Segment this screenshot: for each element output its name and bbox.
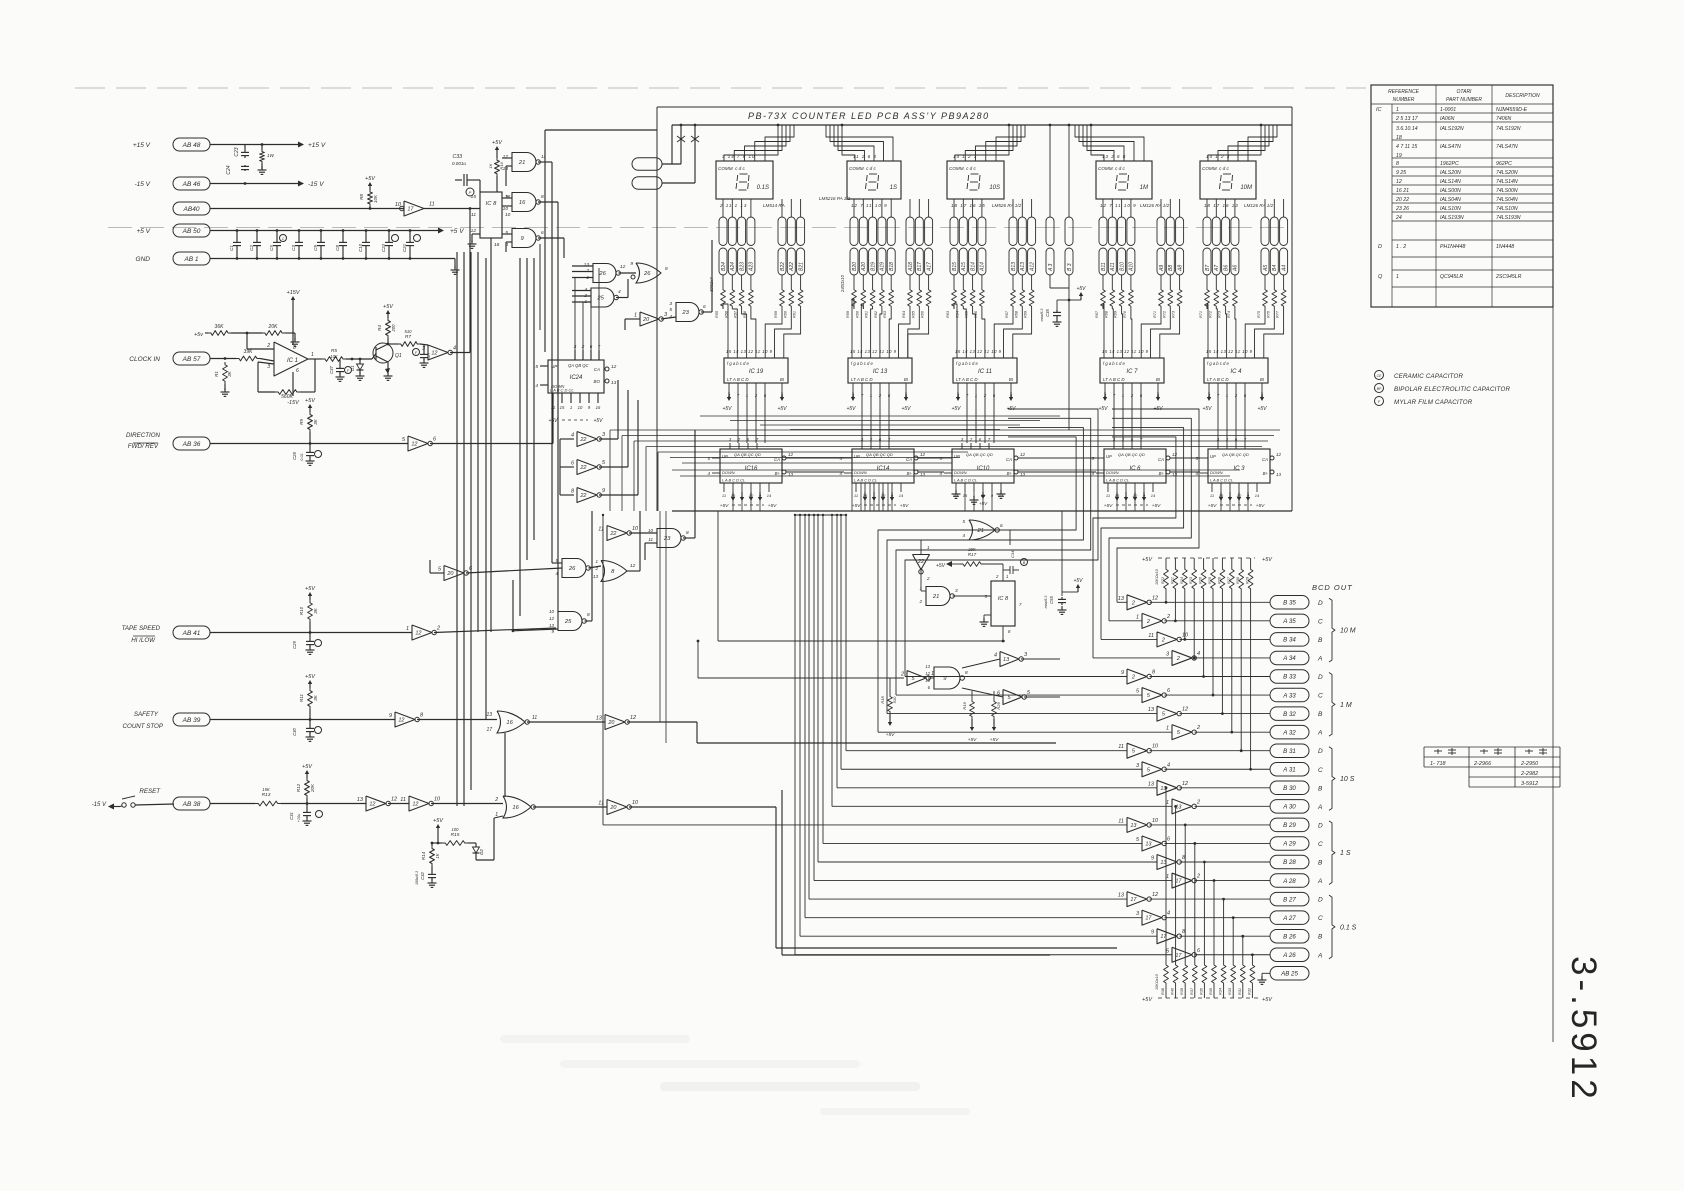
svg-text:C55: C55 <box>1049 595 1054 603</box>
wire NAND25 output <box>616 297 628 299</box>
svg-text:15 14 13 12 11 10 9: 15 14 13 12 11 10 9 <box>1102 349 1149 354</box>
resistor for B8 <box>1169 275 1171 287</box>
svg-text:+5V: +5V <box>1098 406 1108 412</box>
svg-text:+5V: +5V <box>1152 503 1161 509</box>
svg-text:14: 14 <box>767 493 772 498</box>
resistor for A8 <box>1179 275 1181 287</box>
counter IC10 <box>952 449 1014 483</box>
svg-text:D: D <box>1318 897 1323 904</box>
svg-text:12: 12 <box>411 442 417 448</box>
svg-text:A 35: A 35 <box>1282 618 1296 625</box>
svg-text:4: 4 <box>994 653 997 659</box>
svg-text:+5V: +5V <box>886 732 895 738</box>
svg-text:15K: 15K <box>262 787 270 792</box>
svg-text:A: A <box>1317 730 1322 737</box>
NAND gate 21 middle <box>920 568 922 591</box>
counter IC16 <box>720 449 782 483</box>
counter IC16 top pins <box>729 443 731 449</box>
svg-text:R75: R75 <box>1257 310 1261 318</box>
svg-text:1S: 1S <box>890 185 897 191</box>
inverter 20 upper <box>640 312 659 326</box>
connector A 27 <box>1270 911 1309 925</box>
counter IC14 bottom pins <box>855 483 857 492</box>
svg-text:R61: R61 <box>793 311 797 318</box>
svg-text:13: 13 <box>1118 893 1125 899</box>
svg-text:1962PC: 1962PC <box>1440 161 1459 167</box>
svg-text:A17: A17 <box>926 262 932 272</box>
svg-text:1 M: 1 M <box>1340 702 1352 709</box>
connector pad B18 <box>887 217 895 246</box>
svg-text:R36: R36 <box>1199 987 1203 995</box>
counter IC 3 top pins <box>1217 443 1219 449</box>
inverter 22 down <box>913 555 930 570</box>
svg-text:19: 19 <box>1396 153 1402 159</box>
svg-text:2-2982: 2-2982 <box>1520 771 1538 777</box>
svg-text:2: 2 <box>1176 656 1180 662</box>
resistor for B18 <box>890 275 892 287</box>
capacitor C8 <box>342 231 344 241</box>
resistor R4 200 <box>387 313 389 318</box>
faint smudges bottom <box>500 1035 690 1043</box>
wires IC 13 to counter <box>861 392 863 443</box>
wire bus vertical 2 <box>463 252 465 806</box>
connector pad A6 <box>1231 217 1239 246</box>
wire +15V to op-amp <box>292 299 294 345</box>
svg-text:2-2966: 2-2966 <box>1473 761 1492 767</box>
capacitor C32 <box>431 866 433 872</box>
connector pad B22 <box>778 217 786 246</box>
IC8b ground <box>984 614 991 616</box>
svg-text:A24: A24 <box>730 262 736 272</box>
svg-text:100u/6.3: 100u/6.3 <box>415 871 419 885</box>
svg-text:+15V: +15V <box>287 290 301 296</box>
svg-text:R73: R73 <box>1218 310 1222 318</box>
svg-text:IC: IC <box>1376 107 1382 113</box>
svg-text:A13: A13 <box>1020 262 1026 272</box>
counter IC16 bottom pins <box>723 483 725 492</box>
svg-text:C34: C34 <box>1010 550 1015 558</box>
counter IC10 grounds <box>955 490 957 494</box>
svg-text:R9: R9 <box>299 419 304 425</box>
wire +5V rail <box>210 230 438 232</box>
svg-text:R7: R7 <box>405 334 411 340</box>
svg-text:R40: R40 <box>1171 987 1175 995</box>
resistor R22 <box>1165 558 1167 566</box>
parts table <box>1371 85 1553 307</box>
svg-text:12: 12 <box>471 228 477 234</box>
wires 10M into decoder <box>1207 304 1208 358</box>
wire C35 +5V <box>1069 299 1081 301</box>
resistor R39 <box>1184 986 1186 998</box>
connector pad A4 <box>1280 217 1288 246</box>
svg-text:DOWN: DOWN <box>854 470 867 475</box>
wire feed row B 35 <box>1117 601 1127 603</box>
svg-text:R74: R74 <box>1227 311 1231 318</box>
connector pad A7 <box>1212 217 1220 246</box>
svg-text:+5V: +5V <box>305 674 316 680</box>
wire clock to bus <box>450 352 470 354</box>
wires NAND inputs from IC8 <box>502 197 512 199</box>
svg-text:MYLAR FILM CAPACITOR: MYLAR FILM CAPACITOR <box>1394 399 1473 406</box>
svg-text:510: 510 <box>405 329 413 334</box>
svg-text:240Ωx10: 240Ωx10 <box>840 274 845 293</box>
svg-text:11: 11 <box>1148 633 1154 639</box>
IC24 side pins <box>540 365 548 367</box>
resistor R8 pullup <box>369 185 371 190</box>
svg-text:A 34: A 34 <box>1282 655 1296 662</box>
wire feed row B 33 <box>905 676 1127 678</box>
svg-text:IALS04N: IALS04N <box>1440 197 1461 203</box>
svg-text:R64: R64 <box>902 311 906 318</box>
svg-text:C28: C28 <box>292 451 297 459</box>
svg-text:962PC: 962PC <box>1496 161 1512 167</box>
svg-text:20K: 20K <box>310 783 315 793</box>
svg-text:CLOCK IN: CLOCK IN <box>129 356 160 363</box>
wire bus vertical 6 <box>512 580 514 632</box>
wire output row B 34 <box>1180 638 1271 640</box>
counter IC14 <box>852 449 914 483</box>
wires nested bus around IC3 <box>1112 409 1199 602</box>
svg-text:C3: C3 <box>291 245 296 251</box>
resistor for A15 <box>962 275 964 287</box>
svg-text:13: 13 <box>925 664 930 669</box>
inverter 22 a <box>577 432 597 447</box>
comm oval 2 <box>632 177 662 190</box>
svg-text:A 28: A 28 <box>1282 878 1296 885</box>
svg-text:4: 4 <box>1167 911 1170 917</box>
svg-text:BCD OUT: BCD OUT <box>1312 583 1353 592</box>
svg-text:22: 22 <box>609 531 616 537</box>
inverter 17 <box>404 201 424 216</box>
wire NAND16 output <box>538 201 558 203</box>
svg-text:AB40: AB40 <box>183 206 200 213</box>
svg-text:PART NUMBER: PART NUMBER <box>1446 97 1482 103</box>
svg-text:1W: 1W <box>267 153 275 158</box>
svg-text:13: 13 <box>1003 657 1010 663</box>
wire feed row A 29 <box>823 842 1142 844</box>
svg-text:+5V: +5V <box>1142 557 1153 563</box>
svg-text:13: 13 <box>611 380 617 386</box>
svg-text:DESCRIPTION: DESCRIPTION <box>1505 93 1540 99</box>
wires inverter 22 column <box>599 438 618 440</box>
svg-text:A22: A22 <box>789 262 795 272</box>
connector pad A12 <box>1028 217 1036 246</box>
resistor for B21 <box>800 275 802 287</box>
svg-text:IALS47N: IALS47N <box>1440 144 1461 150</box>
svg-text:2-2950: 2-2950 <box>1520 761 1539 767</box>
svg-text:12: 12 <box>503 154 509 160</box>
svg-text:A23: A23 <box>749 262 755 272</box>
svg-text:18: 18 <box>494 242 500 248</box>
inverter 13 for B 29 <box>1127 817 1147 832</box>
wire output row A 29 <box>1165 842 1271 844</box>
wire -15V rail <box>210 183 298 185</box>
svg-text:D: D <box>1318 748 1323 755</box>
svg-text:A9: A9 <box>1159 265 1165 272</box>
svg-text:9: 9 <box>389 713 392 719</box>
wire feed row A 28 <box>814 880 1172 882</box>
svg-text:1: 1 <box>1136 614 1139 620</box>
svg-text:C10: C10 <box>358 243 363 252</box>
svg-text:1: 1 <box>1166 726 1169 732</box>
svg-text:+15 V: +15 V <box>308 142 326 149</box>
wire bus vertical 5 <box>485 258 487 719</box>
wire NAND23 lower inputs <box>645 542 657 544</box>
svg-text:UP: UP <box>1106 454 1112 459</box>
resistor for A5 <box>1264 275 1266 287</box>
connector pad A22 <box>787 217 795 246</box>
wires central vertical bus to lower rows <box>845 515 847 751</box>
inverter 13 for B 30 <box>1157 780 1177 795</box>
svg-text:+5V: +5V <box>979 501 988 506</box>
wire R37 tail <box>1194 843 1196 962</box>
connector A 30 <box>1270 800 1309 814</box>
decoder IC 19 <box>724 358 788 383</box>
wire output row A 28 <box>1195 880 1271 882</box>
svg-text:12: 12 <box>611 364 617 370</box>
svg-text:C: C <box>1318 618 1323 625</box>
feedback resistor 20K <box>231 332 262 334</box>
resistor R9 pullup <box>309 407 311 412</box>
svg-text:74LS14N: 74LS14N <box>1496 179 1518 185</box>
svg-text:R67: R67 <box>1095 310 1099 318</box>
svg-text:QA QB QC QD: QA QB QC QD <box>866 452 893 457</box>
connector pad B19 <box>869 217 877 246</box>
capacitor C35 <box>1057 299 1069 301</box>
connector pad A3 <box>1046 217 1054 246</box>
svg-text:R18: R18 <box>880 696 885 704</box>
svg-text:17: 17 <box>407 207 414 213</box>
svg-text:+5V: +5V <box>1142 997 1153 1003</box>
svg-text:A14: A14 <box>980 262 986 272</box>
capacitor C21 <box>409 231 411 241</box>
svg-text:B+: B+ <box>907 471 913 476</box>
svg-text:10: 10 <box>648 528 654 533</box>
svg-text:R66: R66 <box>921 310 925 318</box>
svg-text:B22: B22 <box>780 262 786 271</box>
resistor R32 <box>1251 986 1253 998</box>
svg-text:AB 57: AB 57 <box>182 356 201 363</box>
svg-text:3: 3 <box>955 588 958 594</box>
resistor R5 10K <box>315 358 322 360</box>
resistor R15 100 <box>438 842 442 844</box>
wire bus vertical 4 <box>477 252 479 632</box>
svg-text:R55: R55 <box>715 310 719 318</box>
svg-text:C35: C35 <box>1045 308 1050 316</box>
svg-text:max/6.3: max/6.3 <box>1044 596 1048 609</box>
page top chain line <box>75 87 1366 89</box>
transistor Q1 <box>373 343 393 363</box>
svg-text:A19: A19 <box>880 262 886 272</box>
wire R21 tail <box>1174 592 1176 621</box>
connector AB36 <box>173 437 210 450</box>
NAND gate 25 tape <box>558 612 582 631</box>
svg-text:AB 1: AB 1 <box>183 256 198 263</box>
svg-text:2: 2 <box>266 343 270 349</box>
svg-text:BO: BO <box>593 379 600 384</box>
wire R28 tail <box>1221 592 1223 714</box>
svg-text:2: 2 <box>900 672 904 678</box>
svg-text:2: 2 <box>1166 614 1170 620</box>
svg-text:IC14: IC14 <box>877 466 890 472</box>
capacitor C10 <box>365 231 367 241</box>
inverter 12 safety <box>395 712 415 727</box>
wire AB41 to inverter <box>210 632 412 634</box>
svg-text:74LS192N: 74LS192N <box>1496 126 1521 132</box>
svg-text:C32: C32 <box>420 871 425 879</box>
inverter 2 for B 34 <box>1157 632 1177 647</box>
wire output row B 33 <box>1150 676 1271 678</box>
wire R33 tail <box>1232 918 1234 962</box>
resistor R25 <box>1212 558 1214 566</box>
svg-text:QA QB QC QD: QA QB QC QD <box>1222 452 1249 457</box>
resistor for A13 <box>1021 275 1023 287</box>
connector pad A11 <box>1108 217 1116 246</box>
wire tape line into NAND25 <box>513 629 558 631</box>
svg-text:9 25: 9 25 <box>1396 170 1406 176</box>
wire bus vertical 10 <box>544 130 546 352</box>
svg-text:9: 9 <box>630 261 633 267</box>
svg-text:5: 5 <box>505 230 508 236</box>
wire +15V rail <box>210 144 298 146</box>
svg-text:NJM4559D-E: NJM4559D-E <box>1496 107 1528 113</box>
wire clock input <box>210 358 236 360</box>
svg-text:B6: B6 <box>1223 265 1229 271</box>
svg-text:11: 11 <box>1118 818 1124 824</box>
inverter 22 b <box>577 460 597 475</box>
svg-text:LT A B C D: LT A B C D <box>1103 377 1125 382</box>
connector pad A9 <box>1157 217 1165 246</box>
wire horizontals bus texture <box>610 429 1280 431</box>
wire title box top <box>657 106 1292 108</box>
wire feed row A 35 <box>1109 620 1142 622</box>
capacitor C2 <box>256 231 258 241</box>
svg-text:17: 17 <box>486 727 492 733</box>
svg-text:6: 6 <box>1000 523 1003 529</box>
wire bus verticals from counters <box>851 483 853 511</box>
svg-text:2: 2 <box>1196 799 1200 805</box>
svg-text:PB-73X COUNTER LED PCB A: PB-73X COUNTER LED PCB ASS’Y PB9A280 <box>748 111 990 121</box>
svg-text:UP: UP <box>1210 454 1216 459</box>
counter IC14 top pins <box>861 443 863 449</box>
svg-text:DOWN: DOWN <box>954 470 967 475</box>
svg-text:12: 12 <box>1276 452 1282 457</box>
resistor R29 <box>1250 558 1252 566</box>
connector B 33 <box>1270 670 1309 684</box>
svg-text:R61: R61 <box>865 311 869 318</box>
wire bus vertical 7 <box>519 258 521 616</box>
wire output row A 30 <box>1195 805 1271 807</box>
svg-text:LT A B C D: LT A B C D <box>956 377 978 382</box>
wire feed row A 27 <box>805 917 1142 919</box>
inverter 5 for A 32 <box>1172 725 1192 740</box>
svg-text:+5V: +5V <box>433 818 444 824</box>
svg-text:A 29: A 29 <box>1282 841 1296 848</box>
svg-text:IC 4: IC 4 <box>1230 369 1242 375</box>
connector pad A23 <box>747 217 755 246</box>
svg-text:C29: C29 <box>292 640 297 648</box>
NAND gate 23 lower <box>657 529 681 548</box>
svg-text:12: 12 <box>398 718 404 724</box>
decoder IC 4 +5V arrows <box>1208 392 1210 398</box>
wire output row A 34 <box>1195 657 1271 659</box>
wire NAND25 tape output <box>585 620 593 622</box>
svg-text:13: 13 <box>1276 472 1282 477</box>
svg-text:B 34: B 34 <box>1283 637 1296 644</box>
svg-text:L A B C D CL: L A B C D CL <box>1210 478 1233 483</box>
svg-text:6: 6 <box>703 304 706 310</box>
svg-text:A18: A18 <box>908 262 914 272</box>
svg-text:300Ωx7: 300Ωx7 <box>709 277 714 292</box>
counter IC 6 top pins <box>1113 443 1115 449</box>
svg-text:R63: R63 <box>883 310 887 318</box>
resistor R14 1K <box>430 846 435 866</box>
svg-text:C2: C2 <box>249 245 254 251</box>
svg-text:CE: CE <box>1377 374 1382 378</box>
resistor for B19 <box>872 275 874 287</box>
svg-text:+5V: +5V <box>951 406 961 412</box>
svg-text:9: 9 <box>1121 670 1124 676</box>
wire R25 tail <box>1212 592 1214 695</box>
NAND gate 9 mid <box>934 667 960 689</box>
svg-text:R71: R71 <box>1199 311 1203 318</box>
svg-text:DOWN: DOWN <box>722 470 735 475</box>
svg-text:IC 7: IC 7 <box>1126 369 1138 375</box>
svg-text:R12: R12 <box>296 783 301 792</box>
resistor for A17 <box>928 275 930 287</box>
svg-text:74LS47N: 74LS47N <box>1496 144 1518 150</box>
svg-text:QA QB QC QD: QA QB QC QD <box>734 452 761 457</box>
svg-text:14: 14 <box>899 493 904 498</box>
svg-text:R29: R29 <box>996 702 1001 710</box>
counter IC10 side pins <box>944 457 952 459</box>
svg-text:7406N: 7406N <box>1496 116 1512 122</box>
svg-text:+5V: +5V <box>492 140 503 146</box>
resistor for B24 <box>722 275 724 287</box>
svg-text:NUMBER: NUMBER <box>1393 97 1415 103</box>
svg-text:1-0001: 1-0001 <box>1440 107 1456 113</box>
wire output row B 30 <box>1180 787 1271 789</box>
wire R27 tail <box>1231 592 1233 732</box>
resistor R33 <box>1232 986 1234 998</box>
IC24 top pins <box>574 350 576 360</box>
svg-text:10 S: 10 S <box>1340 776 1355 783</box>
svg-text:R8: R8 <box>359 194 364 200</box>
svg-text:12: 12 <box>431 351 437 357</box>
svg-text:20: 20 <box>446 571 454 577</box>
svg-text:1: 1 <box>570 405 572 410</box>
wire bus vertical 1 <box>456 252 458 806</box>
svg-text:10M: 10M <box>1240 185 1252 191</box>
svg-text:13: 13 <box>1145 841 1152 847</box>
svg-text:39K: 39K <box>244 349 254 355</box>
svg-text:100: 100 <box>452 827 460 832</box>
capacitor C23 <box>244 145 246 151</box>
connector pad A14 <box>978 217 986 246</box>
svg-text:20 22: 20 22 <box>1395 197 1409 203</box>
svg-text:12: 12 <box>1152 892 1158 898</box>
svg-text:9: 9 <box>1151 930 1154 936</box>
svg-text:R65: R65 <box>911 310 915 318</box>
svg-text:UP: UP <box>954 454 960 459</box>
svg-text:1K: 1K <box>435 853 440 858</box>
svg-text:QC945LR: QC945LR <box>1440 274 1463 280</box>
horizontal chain line through connector rows <box>108 226 1292 228</box>
inverter 22 c <box>577 488 597 503</box>
svg-text:17: 17 <box>1175 879 1182 885</box>
svg-text:+5V: +5V <box>852 503 861 509</box>
counter IC 3 side pins <box>1200 457 1208 459</box>
